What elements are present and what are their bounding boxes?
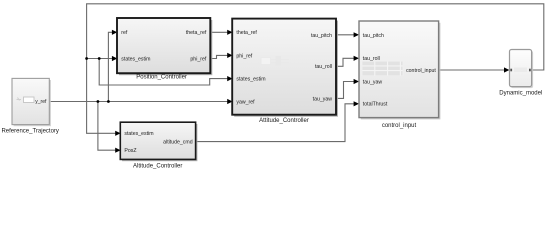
arrowhead into Altitude_Controller PosZ <box>115 148 120 153</box>
block Altitude_Controller <box>120 122 197 161</box>
arrowhead into Dynamic_model <box>504 67 509 72</box>
wire control_input output to Dynamic_model <box>439 69 505 71</box>
svg-text:Reference_Trajectory: Reference_Trajectory <box>1 128 58 134</box>
svg-text:states_estim: states_estim <box>124 131 153 137</box>
svg-text:theta_ref: theta_ref <box>186 30 207 36</box>
arrowhead into Position_Controller ref <box>112 30 117 35</box>
block Dynamic_model <box>510 50 534 89</box>
inner faint content <box>514 68 527 73</box>
svg-text:phi_ref: phi_ref <box>236 53 252 59</box>
arrowhead into Attitude_Controller yaw_ref <box>227 99 232 104</box>
svg-text:control_input: control_input <box>406 68 436 74</box>
wire tau_roll Attitude to control_input <box>336 58 355 66</box>
wire branch y_ref up to Position_Controller ref <box>108 32 112 101</box>
svg-text:theta_ref: theta_ref <box>236 30 257 36</box>
svg-text:totalThrust: totalThrust <box>363 102 388 108</box>
wire tau_pitch Attitude to control_input <box>336 34 355 36</box>
inner left port nub <box>510 69 512 72</box>
junction dot y_ref to PosZ <box>97 100 100 103</box>
svg-text:Position_Controller: Position_Controller <box>136 75 187 81</box>
svg-text:tau_pitch: tau_pitch <box>311 33 332 39</box>
watermark preview inside Attitude_Controller <box>261 56 289 66</box>
svg-text:tau_roll: tau_roll <box>363 56 380 62</box>
watermark preview inside control_input <box>362 61 403 76</box>
wire branch states to Attitude_Controller states_estim <box>99 59 228 86</box>
svg-text:y_ref: y_ref <box>35 99 47 105</box>
block control_input <box>359 21 440 119</box>
wire feedback states from Dynamic_model output around top to left side <box>87 4 544 134</box>
block Reference_Trajectory <box>12 78 51 126</box>
block Position_Controller <box>117 18 212 75</box>
svg-text:altitude_cmd: altitude_cmd <box>163 140 193 146</box>
junction dot states to Position <box>85 57 88 60</box>
arrowhead into control_input tau_pitch <box>354 32 359 37</box>
wire y_ref from Reference_Trajectory to Attitude_Controller yaw_ref <box>49 101 228 103</box>
svg-text:control_input: control_input <box>382 123 417 129</box>
inner right port nub <box>529 69 531 72</box>
inner scope icon <box>17 98 22 101</box>
svg-text:Dynamic_model: Dynamic_model <box>499 91 542 97</box>
svg-text:Attitude_Controller: Attitude_Controller <box>259 118 309 124</box>
junction dot states to Attitude <box>98 57 101 60</box>
svg-text:tau_pitch: tau_pitch <box>363 33 384 39</box>
arrowhead into Attitude_Controller states_estim <box>227 76 232 81</box>
wire tau_yaw Attitude to control_input <box>336 82 355 99</box>
svg-text:yaw_ref: yaw_ref <box>236 99 255 105</box>
wire theta_ref Position to Attitude <box>210 31 228 33</box>
wire branch states to Position_Controller states_estim <box>87 58 113 60</box>
svg-text:states_estim: states_estim <box>236 77 265 83</box>
svg-text:tau_roll: tau_roll <box>315 64 332 70</box>
svg-text:tau_yaw: tau_yaw <box>313 96 333 102</box>
wire altitude_cmd Altitude_Controller to control_input totalThrust <box>196 104 355 142</box>
svg-text:ref: ref <box>121 30 128 36</box>
arrowhead into Altitude_Controller states_estim <box>115 131 120 136</box>
arrowhead into Attitude_Controller theta_ref <box>227 30 232 35</box>
svg-text:phi_ref: phi_ref <box>190 56 206 62</box>
block Attitude_Controller <box>232 19 338 117</box>
arrowhead into Position_Controller states_estim <box>112 56 117 61</box>
arrowhead into control_input totalThrust <box>354 101 359 106</box>
arrowhead into control_input tau_yaw <box>354 79 359 84</box>
junction dot y_ref to ref <box>107 100 110 103</box>
arrowhead into Attitude_Controller phi_ref <box>227 53 232 58</box>
wire branch y_ref down to Altitude_Controller PosZ <box>98 102 116 151</box>
svg-text:states_estim: states_estim <box>121 56 150 62</box>
svg-text:Altitude_Controller: Altitude_Controller <box>133 164 182 170</box>
arrowhead into control_input tau_roll <box>354 56 359 61</box>
wire phi_ref Position to Attitude <box>210 55 228 58</box>
svg-text:tau_yaw: tau_yaw <box>363 79 383 85</box>
svg-text:PosZ: PosZ <box>124 148 136 154</box>
inner subsystem box <box>24 97 35 103</box>
